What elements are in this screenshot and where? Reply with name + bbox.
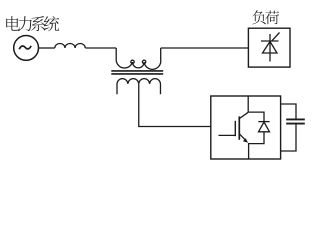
IGBT Q1 emitter arrowhead xyxy=(243,138,248,143)
transformer T1 primary cusp loop 1 xyxy=(131,60,134,63)
diode D1 cathode bar xyxy=(258,121,269,123)
transformer T1 core (two bars) xyxy=(111,70,163,72)
IGBT Q1 gate lead xyxy=(219,134,236,136)
converter box xyxy=(211,96,281,159)
wire: source to inductor xyxy=(39,47,55,49)
transformer T1 primary winding (scallops with loops) xyxy=(116,48,132,68)
wire: secondary centre tap down and right to converter xyxy=(139,84,211,127)
IGBT Q1 body bar xyxy=(238,116,240,139)
wire: capacitor bottom stub xyxy=(281,125,296,152)
inductor L1 (3 humps) xyxy=(55,43,85,48)
IGBT Q1 emitter diagonal xyxy=(239,134,245,140)
wire: capacitor top stub xyxy=(281,104,296,119)
thyristor V1 gate xyxy=(272,33,280,41)
IGBT Q1 gate bar xyxy=(234,121,236,136)
wire: primary to load box xyxy=(161,47,249,49)
IGBT Q1 collector diagonal xyxy=(239,112,248,118)
capacitor C1 top plate xyxy=(286,118,305,120)
transformer T1 secondary winding (4 bumps) xyxy=(117,79,160,95)
thyristor V1 triangle xyxy=(263,42,278,54)
AC source G1 sine (~) mark xyxy=(19,46,31,49)
wire: inductor to transformer primary xyxy=(85,47,116,49)
load box (负荷) xyxy=(248,28,290,67)
label: 负荷 (load) xyxy=(252,10,279,24)
label: 电力系统 (power system) xyxy=(6,16,59,31)
thyristor V1 cathode bar xyxy=(261,40,279,42)
IGBT Q1 emitter rail to box bottom xyxy=(248,143,250,159)
wire: diode top branch xyxy=(248,112,264,122)
capacitor C1 bottom plate xyxy=(286,123,305,125)
transformer T1 primary cusp loop 2 xyxy=(142,60,145,63)
AC source G1 (电力系统) circle xyxy=(14,36,39,61)
IGBT Q1 collector rail from box top xyxy=(247,96,249,112)
thyristor V1 vertical lead xyxy=(269,34,271,62)
wire: diode bottom branch xyxy=(249,132,264,144)
diode D1 triangle xyxy=(259,122,270,132)
